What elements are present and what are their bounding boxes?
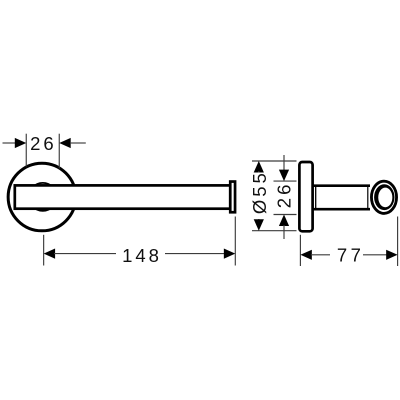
dim 26 side: bottom arrow (up) bbox=[279, 215, 289, 226]
dim 77: line left segment bbox=[311, 254, 330, 256]
dim 26 top: right extension line bbox=[58, 134, 60, 169]
arm top line bbox=[313, 184, 370, 187]
dim 26 side: top arrow (down) bbox=[279, 170, 289, 181]
roll bar bbox=[15, 185, 231, 208]
collar line bbox=[315, 187, 317, 209]
dim 77: line right segment bbox=[363, 254, 387, 256]
dim 148: line right segment bbox=[165, 253, 226, 255]
svg-text:26: 26 bbox=[30, 133, 57, 154]
dim 26 top: right arrow bbox=[59, 138, 70, 148]
wall plate circle bbox=[8, 163, 76, 231]
dim 26 top: left tail line bbox=[3, 142, 17, 144]
svg-text:26: 26 bbox=[273, 182, 294, 209]
dim diam55: bottom extension line bbox=[252, 230, 297, 232]
dim 148: left extension line bbox=[43, 235, 45, 266]
dim 26 top: right tail line bbox=[70, 142, 86, 144]
dim 77: left extension line bbox=[299, 235, 301, 266]
ring hole bbox=[378, 188, 392, 208]
wall plate side profile bbox=[299, 162, 312, 231]
dim 26 side: top extension line bbox=[274, 180, 297, 182]
dim diam55: bottom arrow bbox=[254, 219, 264, 230]
ring inner band bbox=[374, 184, 394, 210]
dim 77: right extension line bbox=[397, 217, 399, 267]
dim 26 side: upper tail line bbox=[283, 155, 285, 171]
bar end cap bbox=[230, 182, 235, 213]
dim 26 side: bottom extension line bbox=[274, 214, 297, 216]
dim diam55: line lower segment bbox=[258, 219, 260, 221]
svg-text:77: 77 bbox=[337, 244, 364, 265]
hub circle (small concentric) bbox=[29, 183, 57, 211]
arm end line bbox=[367, 187, 369, 209]
dim 148: right arrow bbox=[224, 249, 235, 259]
svg-text:148: 148 bbox=[122, 245, 162, 266]
dim 77: right arrow bbox=[386, 250, 397, 260]
dim 77: left arrow bbox=[300, 250, 311, 260]
ring outer bbox=[371, 181, 396, 213]
dim 148: left arrow bbox=[44, 249, 55, 259]
dim diam55: line upper segment bbox=[258, 171, 260, 173]
dim 26 top: left extension line bbox=[25, 134, 27, 167]
dim 26 top: left arrow bbox=[15, 138, 26, 148]
dim diam55: top extension line bbox=[252, 160, 297, 162]
dim 26 side: lower tail line bbox=[283, 225, 285, 239]
dim 148: line left segment bbox=[54, 253, 116, 255]
arm bottom line bbox=[313, 208, 370, 211]
dim diam55: top arrow bbox=[254, 161, 264, 172]
svg-text:Ø55: Ø55 bbox=[249, 170, 270, 214]
dim 148: right extension line bbox=[234, 217, 236, 266]
